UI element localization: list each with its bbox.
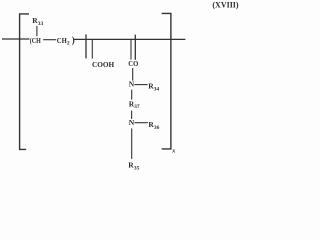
svg-text:COOH: COOH (92, 60, 114, 69)
bond R37 to N2 (131, 111, 133, 119)
svg-text:CO: CO (128, 59, 138, 68)
svg-text:36: 36 (154, 125, 160, 131)
svg-text:N: N (129, 80, 135, 89)
svg-text:x: x (171, 149, 175, 155)
svg-text:(XVIII): (XVIII) (212, 1, 239, 10)
substituent R34 (148, 82, 159, 93)
substituent R33 (32, 16, 43, 27)
backbone wire right segment (74, 38, 186, 40)
backbone wire left segment (2, 38, 30, 40)
substituent R35 (128, 161, 139, 172)
right bracket (162, 13, 171, 149)
bond N2 to R35 (131, 128, 133, 159)
svg-text:CH: CH (57, 36, 67, 45)
svg-text:33: 33 (38, 21, 44, 27)
bond CO to N1 (132, 68, 134, 81)
svg-text:2: 2 (67, 41, 70, 47)
bond to COOH (91, 39, 93, 58)
svg-text:N: N (129, 118, 135, 127)
svg-text:34: 34 (154, 87, 160, 93)
text CH2 (57, 36, 70, 47)
left bracket (20, 14, 29, 150)
substituent R36 (148, 120, 159, 131)
svg-text:): ) (72, 35, 75, 45)
bond to CO (130, 39, 132, 59)
bond N1 to R34 (134, 84, 147, 86)
svg-text:35: 35 (134, 166, 140, 172)
svg-text:(CH: (CH (30, 36, 41, 45)
svg-text:37: 37 (134, 104, 140, 110)
bond N2 to R36 (134, 122, 148, 124)
inner paren open stroke (85, 34, 87, 58)
bond CH to CH2 (43, 39, 56, 41)
substituent R37 (129, 99, 140, 110)
inner paren close stroke (134, 35, 136, 60)
bond N1 to R37 (131, 90, 133, 100)
bond R33 to CH (36, 26, 38, 36)
